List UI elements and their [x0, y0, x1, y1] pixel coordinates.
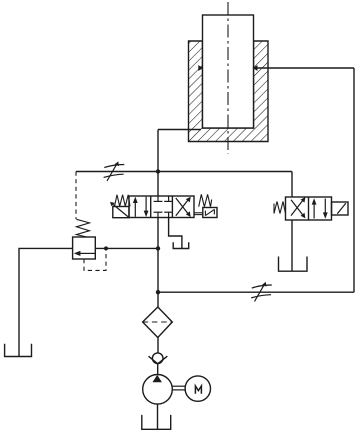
- U1 left solenoid: [113, 207, 129, 218]
- wire: RV outlet to left tank: [19, 248, 73, 356]
- RV drain pilot loop (dashed): [84, 250, 106, 270]
- throttle valve (variable) on bottom branch: [251, 282, 272, 302]
- wire: branch down to unload valve: [291, 172, 293, 198]
- wire: T drain of U1: [169, 218, 182, 249]
- U2 left box crossed arrows: [291, 197, 305, 218]
- tank under U2: [279, 257, 308, 272]
- unload valve U2 body: [286, 197, 332, 220]
- cylinder body walls (hatched U vessel): [189, 41, 269, 142]
- wire: check valve to pump: [157, 364, 159, 375]
- cylinder left port arrow: [198, 65, 203, 71]
- coupling pump-motor: [172, 385, 185, 387]
- node bottom branch dot: [156, 290, 160, 294]
- wire: filter to check valve: [157, 338, 159, 354]
- check valve: [152, 353, 163, 364]
- U1 right solenoid: [203, 208, 217, 218]
- wire: cylinder right port to right rail: [253, 67, 354, 69]
- 4/3 directional valve U1 body: [129, 196, 194, 218]
- node relief branch dot: [156, 246, 160, 250]
- RV spring: [76, 219, 89, 237]
- tank under U1: [173, 242, 189, 248]
- filter: [143, 307, 173, 338]
- wire: RV inlet from P rail: [95, 247, 158, 249]
- left tank: [5, 344, 32, 357]
- U1 left spring: [115, 195, 131, 207]
- relief valve RV body: [73, 237, 96, 259]
- U2 solenoid: [332, 202, 349, 215]
- U1 left box arrows: [133, 197, 149, 217]
- wire: P line valve to pump rail: [157, 218, 159, 308]
- node A junction dot: [156, 169, 160, 173]
- cylinder plunger (ram): [203, 15, 254, 128]
- wire: cylinder left port horizontal: [158, 129, 201, 131]
- wire: bottom branch horizontal: [158, 291, 354, 293]
- U1 centre box blocked ports: [154, 196, 173, 217]
- throttle valve (variable) on pilot header: [104, 161, 125, 181]
- pump P1: [143, 375, 173, 405]
- cylinder right port arrow: [253, 65, 258, 71]
- wire: U2 drain to tank: [291, 220, 293, 271]
- U2 left spring: [273, 204, 275, 214]
- tank under pump: [142, 415, 171, 429]
- wire: pilot header horizontal: [76, 171, 292, 173]
- wire: A-line vertical down to valve: [157, 130, 159, 197]
- U2 right box arrows: [312, 198, 328, 219]
- motor M1: [185, 376, 210, 401]
- U1 right spring: [199, 194, 212, 206]
- cylinder centerline: [227, 2, 229, 154]
- wire: pump suction to tank: [157, 404, 159, 429]
- RV pilot line (dashed vertical): [75, 172, 77, 220]
- wire: right rail down: [353, 68, 355, 292]
- U1 right box crossed arrows: [176, 197, 191, 217]
